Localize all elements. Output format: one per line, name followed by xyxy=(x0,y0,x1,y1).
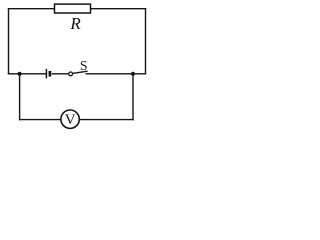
battery xyxy=(46,69,50,79)
wire battery-to-switch xyxy=(52,73,68,75)
svg-text:R: R xyxy=(69,14,81,33)
wire top-right segment xyxy=(91,8,146,10)
wire middle-right (switch to right corner) xyxy=(86,73,145,75)
junction node left xyxy=(18,72,22,76)
voltmeter V xyxy=(61,110,79,128)
wire middle-left (to battery) xyxy=(9,73,47,75)
wire right drop xyxy=(132,74,134,120)
junction node right xyxy=(131,72,135,76)
svg-text:V: V xyxy=(65,112,76,128)
wire left vertical xyxy=(8,9,10,74)
wire right vertical xyxy=(145,9,147,74)
wire bottom-left segment xyxy=(20,119,61,121)
wire left drop xyxy=(19,74,21,120)
wire top-left segment xyxy=(9,8,55,10)
svg-text:S: S xyxy=(80,58,88,73)
resistor R xyxy=(55,4,91,33)
switch S xyxy=(69,58,88,76)
wire bottom-right segment xyxy=(79,119,133,121)
